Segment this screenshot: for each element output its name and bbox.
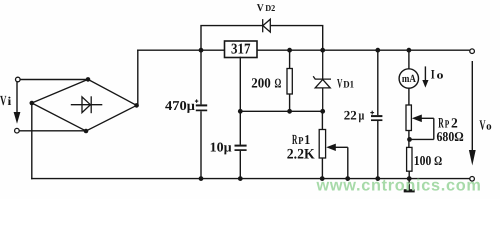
- capacitor C1 470u: [195, 50, 207, 178]
- node 200ohm/rail: [287, 48, 292, 53]
- terminal circle output bottom: [470, 177, 475, 182]
- regulator U1 317 box: [225, 41, 258, 58]
- node bridge top vertex: [86, 77, 91, 82]
- node 22u/rail: [375, 48, 380, 53]
- svg-text:o: o: [486, 121, 492, 133]
- wire left vertical from bridge left vertex: [31, 103, 33, 179]
- node Rp1 wiper/bottom rail: [345, 176, 350, 181]
- node bridge bottom vertex: [84, 129, 89, 134]
- wire top rail right: [257, 49, 470, 51]
- node 200ohm/ADJ: [287, 109, 292, 114]
- diode inside bridge: [71, 96, 103, 113]
- zener diode VD1: [313, 50, 331, 111]
- svg-text:V: V: [0, 94, 6, 109]
- terminal circle input bottom: [15, 128, 20, 133]
- diode VD2: [263, 19, 271, 32]
- node Rp2 wiper return: [407, 137, 412, 142]
- svg-text:I: I: [431, 67, 435, 82]
- ammeter mA: [399, 50, 418, 105]
- potentiometer Rp1: [319, 111, 325, 178]
- svg-text:100: 100: [414, 153, 432, 168]
- wire input top: [20, 79, 88, 81]
- svg-text:D1: D1: [343, 80, 354, 91]
- ground: [404, 179, 415, 191]
- svg-text:V: V: [337, 76, 343, 91]
- capacitor C2 10u: [235, 111, 247, 178]
- svg-text:680Ω: 680Ω: [437, 129, 464, 144]
- wiper of Rp2: [410, 115, 434, 140]
- wire top rail left: [138, 49, 225, 51]
- node 22u/bottom rail: [375, 176, 380, 181]
- svg-text:P: P: [298, 136, 304, 147]
- resistor R1 200ohm: [287, 50, 292, 111]
- svg-text:www.cntronics.com: www.cntronics.com: [316, 176, 482, 194]
- node meter/rail: [407, 48, 412, 53]
- svg-text:o: o: [437, 70, 445, 82]
- potentiometer Rp2: [406, 105, 411, 147]
- svg-text:317: 317: [231, 42, 251, 58]
- node bridge right vertex: [134, 103, 139, 108]
- svg-text:22: 22: [344, 107, 357, 122]
- wire from bridge right vertex up: [137, 50, 139, 105]
- wire VD2 bypass: [201, 26, 323, 51]
- terminal circle output top: [470, 49, 475, 54]
- wire input bottom: [19, 130, 86, 132]
- Vi arrow: [14, 82, 21, 124]
- resistor R2 100ohm: [407, 147, 412, 178]
- node VD1/ADJ: [320, 109, 325, 114]
- svg-text:470µ: 470µ: [165, 98, 195, 113]
- node ADJ pin: [238, 109, 243, 114]
- node bridge left vertex: [30, 101, 35, 106]
- wiper of Rp1: [326, 144, 348, 179]
- node 100ohm/bottom rail: [407, 176, 412, 181]
- svg-text:D2: D2: [265, 3, 275, 13]
- svg-text:200: 200: [251, 77, 270, 92]
- svg-text:Ω: Ω: [275, 76, 282, 91]
- bridge rectifier diamond: [32, 79, 137, 131]
- node 10u/bottom rail: [238, 176, 243, 181]
- node 470u/bottom rail: [199, 176, 204, 181]
- svg-text:10µ: 10µ: [210, 140, 232, 155]
- terminal circle input top: [15, 77, 20, 82]
- node bypass-left/rail: [199, 48, 204, 53]
- svg-text:2.2K: 2.2K: [287, 146, 316, 162]
- svg-text:µ: µ: [359, 107, 365, 122]
- node bypass-right/rail: [320, 48, 325, 53]
- svg-text:Ω: Ω: [434, 153, 442, 168]
- Io arrow: [422, 66, 428, 87]
- Vo arrow: [469, 61, 476, 166]
- wire 317 ADJ pin: [239, 57, 241, 112]
- svg-text:1: 1: [304, 132, 310, 147]
- svg-text:mA: mA: [402, 73, 416, 85]
- wire ADJ horizontal: [240, 110, 322, 112]
- node Rp1/bottom rail: [320, 176, 325, 181]
- wire bottom rail: [32, 178, 470, 180]
- svg-text:V: V: [257, 3, 264, 14]
- capacitor C3 22u: [370, 50, 382, 178]
- svg-text:V: V: [479, 119, 485, 134]
